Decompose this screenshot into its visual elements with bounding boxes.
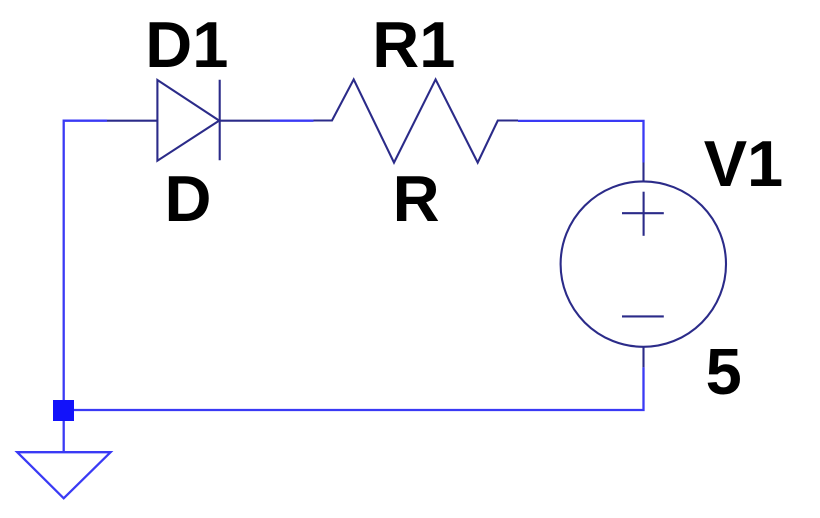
svg-text:V1: V1 bbox=[704, 127, 784, 200]
wire voltage source to junction bbox=[64, 367, 644, 410]
voltage source V1 bbox=[561, 163, 726, 368]
svg-text:R1: R1 bbox=[372, 8, 455, 81]
junction node bbox=[53, 400, 74, 421]
ground bbox=[17, 452, 110, 498]
svg-text:5: 5 bbox=[706, 335, 742, 408]
resistor R1 bbox=[314, 79, 519, 162]
svg-text:R: R bbox=[393, 162, 440, 235]
svg-text:D1: D1 bbox=[145, 8, 228, 81]
diode D1 bbox=[107, 80, 270, 161]
svg-text:D: D bbox=[165, 162, 212, 235]
wire between diode and resistor bbox=[270, 120, 314, 122]
wire top-left segment bbox=[64, 121, 107, 400]
wire junction to ground bbox=[63, 421, 65, 452]
wire resistor to voltage source bbox=[518, 121, 644, 163]
